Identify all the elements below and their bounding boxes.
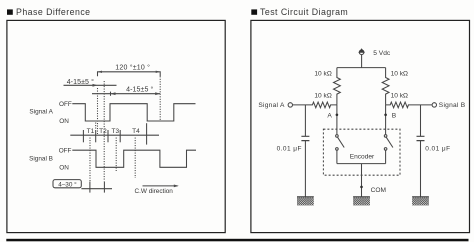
wire node B to resistor R4 horizontal 10k [386, 102, 432, 108]
svg-text:10 kΩ: 10 kΩ [391, 92, 408, 99]
COM dot [360, 186, 363, 189]
svg-text:Encoder: Encoder [350, 153, 375, 160]
ground G2 [353, 197, 370, 206]
4-30 tick 1 [89, 182, 91, 193]
svg-text:T4: T4 [132, 128, 140, 135]
svg-text:Signal A: Signal A [29, 109, 53, 116]
bottom rule [6, 239, 468, 242]
svg-text:0.01 μF: 0.01 μF [277, 145, 302, 152]
capacitor C1 plates [301, 136, 309, 140]
ground G3 [412, 197, 429, 206]
resistor R1 vertical 10k [334, 68, 341, 105]
4-30 tick 2 [103, 182, 105, 193]
svg-text:ON: ON [59, 118, 69, 125]
svg-text:10 kΩ: 10 kΩ [314, 92, 331, 99]
svg-text:4-15±5 °: 4-15±5 ° [67, 78, 94, 86]
T tick 1 [82, 130, 84, 142]
T tick 5 tall [146, 123, 148, 144]
node A wire down to switch [336, 105, 338, 134]
svg-text:Signal A: Signal A [258, 102, 285, 109]
svg-text:C.W direction: C.W direction [135, 188, 174, 195]
dim line 4-15 first [64, 84, 117, 86]
left panel frame [7, 20, 225, 232]
section marker square: Phase Difference [7, 9, 13, 14]
T tick 2 [95, 130, 97, 142]
svg-text:Test Circuit Diagram: Test Circuit Diagram [260, 7, 348, 17]
svg-text:5 Vdc: 5 Vdc [373, 50, 391, 57]
node B wire down to switch [385, 105, 387, 134]
svg-text:T1: T1 [87, 128, 95, 135]
T axis [70, 134, 159, 136]
guide dotted above axis at B drop [95, 123, 97, 130]
svg-text:A: A [327, 112, 332, 119]
CW direction arrow [143, 185, 178, 187]
capacitor C2 plates [417, 136, 425, 140]
right panel frame [251, 20, 470, 232]
svg-text:120 °±10 °: 120 °±10 ° [115, 64, 150, 72]
terminal circle Signal B [432, 103, 436, 107]
signal A wire + resistor R3 horizontal 10k [293, 102, 337, 108]
svg-text:OFF: OFF [59, 101, 72, 108]
section marker square: Test Circuit Diagram [251, 9, 257, 14]
guide dotted under T3 [115, 138, 117, 172]
svg-text:Signal B: Signal B [29, 155, 53, 162]
svg-text:4–30 °: 4–30 ° [58, 181, 77, 189]
resistor R2 vertical 10k [382, 68, 389, 105]
T tick 4 [119, 130, 121, 142]
svg-text:Phase Difference: Phase Difference [16, 7, 91, 17]
svg-text:ON: ON [59, 165, 69, 172]
signal B waveform [72, 150, 196, 167]
svg-text:T3: T3 [112, 128, 120, 135]
cap branch wire right [420, 105, 422, 197]
svg-text:Signal B: Signal B [439, 102, 466, 109]
svg-text:T2: T2 [99, 128, 107, 135]
T tick 3 [107, 130, 109, 142]
5Vdc supply symbol [359, 50, 364, 55]
svg-text:10 kΩ: 10 kΩ [391, 70, 408, 77]
4-30 label box [53, 180, 81, 188]
encoder dashed box [323, 129, 400, 175]
svg-text:10 kΩ: 10 kΩ [314, 70, 331, 77]
encoder bottom rail [337, 163, 386, 165]
dim line 120 deg [98, 72, 161, 77]
switch SW2 [384, 135, 387, 138]
guide dotted at 160 [159, 76, 161, 121]
switch SW1 [336, 135, 339, 138]
signal A waveform [72, 104, 195, 121]
4-30 leader line [81, 188, 112, 190]
COM stem [361, 164, 363, 197]
svg-text:4-15±5 °: 4-15±5 ° [126, 86, 153, 94]
cap branch wire left [304, 105, 306, 197]
svg-text:COM: COM [371, 187, 386, 194]
svg-text:0.01 μF: 0.01 μF [425, 145, 450, 152]
dim line 4-15 second [92, 93, 160, 95]
svg-text:OFF: OFF [59, 148, 72, 155]
node B dot [384, 114, 387, 117]
terminal circle Signal A [288, 103, 292, 107]
top rail [337, 67, 386, 69]
ground G1 [297, 197, 314, 206]
guide dotted at 104.2 [103, 81, 105, 181]
guide solid-dotted at 97.5 [97, 88, 99, 134]
guide dotted under T1 [89, 138, 91, 182]
svg-text:B: B [392, 112, 397, 119]
node A dot [336, 114, 339, 117]
guide dotted under T4 [134, 138, 136, 179]
